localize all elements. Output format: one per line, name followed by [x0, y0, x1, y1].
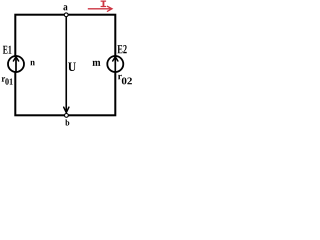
label I	[101, 1, 107, 8]
node b	[65, 114, 69, 118]
label n	[30, 61, 34, 66]
wire: outer circuit loop a-E1-b-E2	[15, 15, 115, 116]
wire: middle branch from node a to node b	[65, 15, 67, 112]
label E2	[117, 45, 126, 53]
source E2 circle	[107, 56, 123, 72]
E1 emf arrowhead (up)	[13, 57, 18, 61]
label E1	[3, 46, 12, 54]
wire through E1	[15, 55, 17, 73]
label U	[68, 63, 76, 72]
arrowhead U (down)	[64, 107, 69, 112]
label a	[63, 5, 67, 10]
node a	[64, 13, 68, 17]
label r02	[118, 75, 122, 80]
label r01	[2, 77, 6, 82]
label m	[93, 61, 101, 66]
label b	[65, 120, 69, 126]
wire through E2	[114, 55, 116, 72]
current arrow I (red)	[88, 8, 111, 10]
source E1 circle	[8, 56, 24, 72]
E2 emf arrowhead (up)	[113, 57, 118, 61]
